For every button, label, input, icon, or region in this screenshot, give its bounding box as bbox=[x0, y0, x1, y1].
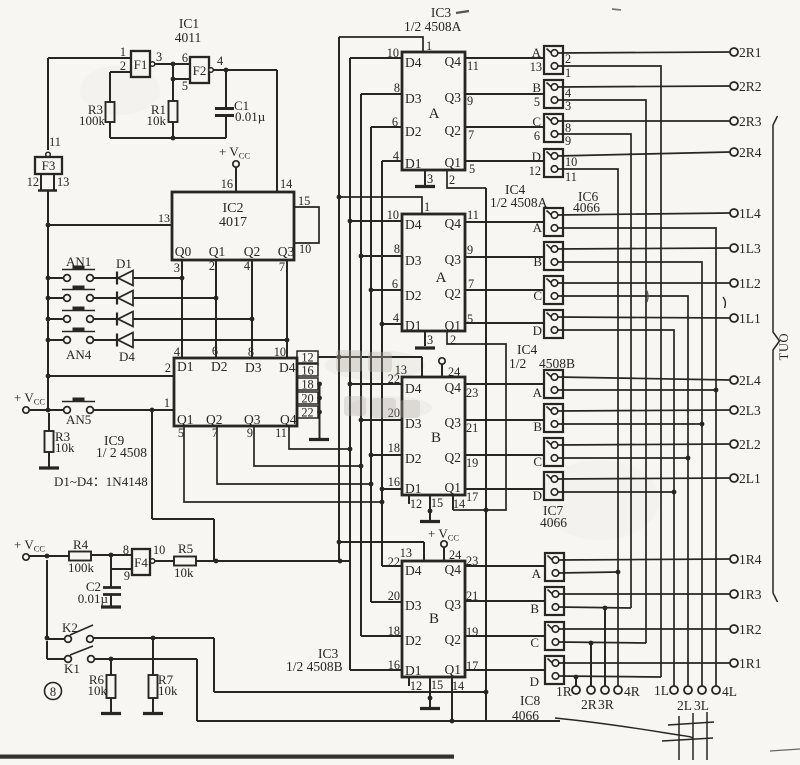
svg-text:10: 10 bbox=[387, 46, 399, 60]
svg-text:21: 21 bbox=[466, 421, 478, 435]
svg-text:Q1: Q1 bbox=[445, 662, 462, 677]
svg-text:A: A bbox=[532, 566, 542, 581]
svg-text:D2: D2 bbox=[405, 633, 422, 648]
svg-text:Q2: Q2 bbox=[244, 244, 261, 259]
svg-text:D1: D1 bbox=[405, 481, 422, 496]
svg-text:16: 16 bbox=[388, 475, 400, 489]
svg-text:15: 15 bbox=[431, 496, 443, 510]
svg-text:1L1: 1L1 bbox=[739, 311, 761, 326]
svg-text:D: D bbox=[533, 488, 542, 503]
svg-text:3: 3 bbox=[156, 50, 162, 64]
svg-text:4: 4 bbox=[174, 345, 180, 359]
svg-text:R4: R4 bbox=[73, 537, 89, 552]
svg-text:6: 6 bbox=[392, 277, 398, 291]
svg-text:11: 11 bbox=[565, 170, 577, 184]
svg-text:13: 13 bbox=[530, 60, 542, 74]
svg-text:12: 12 bbox=[410, 679, 422, 693]
svg-text:IC4: IC4 bbox=[517, 342, 538, 357]
svg-text:17: 17 bbox=[466, 490, 478, 504]
svg-text:1/2 4508B: 1/2 4508B bbox=[286, 659, 343, 674]
svg-text:1/ 2 4508: 1/ 2 4508 bbox=[96, 445, 147, 460]
svg-text:1/2 4508A: 1/2 4508A bbox=[490, 195, 548, 210]
svg-text:1R1: 1R1 bbox=[739, 656, 762, 671]
svg-text:2R3: 2R3 bbox=[739, 114, 762, 129]
svg-text:10k: 10k bbox=[55, 440, 75, 455]
svg-text:D4: D4 bbox=[405, 381, 422, 396]
svg-text:D4: D4 bbox=[405, 217, 422, 232]
svg-text:D1: D1 bbox=[405, 156, 422, 171]
svg-text:9: 9 bbox=[124, 569, 130, 583]
svg-text:A: A bbox=[532, 45, 542, 60]
svg-text:1: 1 bbox=[120, 45, 126, 59]
svg-text:Q1: Q1 bbox=[209, 244, 226, 259]
svg-text:Q3: Q3 bbox=[445, 415, 462, 430]
svg-text:1: 1 bbox=[424, 200, 430, 214]
svg-text:6: 6 bbox=[534, 129, 540, 143]
svg-text:C: C bbox=[533, 288, 542, 303]
svg-text:Q2: Q2 bbox=[445, 450, 462, 465]
svg-text:12: 12 bbox=[27, 175, 39, 189]
svg-text:18: 18 bbox=[301, 378, 313, 392]
svg-text:D1: D1 bbox=[177, 359, 194, 374]
svg-text:AN5: AN5 bbox=[66, 412, 91, 427]
svg-text:Q3: Q3 bbox=[445, 597, 462, 612]
svg-text:D4: D4 bbox=[279, 360, 296, 375]
svg-text:8: 8 bbox=[248, 345, 254, 359]
svg-text:4: 4 bbox=[244, 259, 250, 273]
svg-text:1R2: 1R2 bbox=[739, 622, 762, 637]
svg-text:D4: D4 bbox=[405, 563, 422, 578]
svg-text:100k: 100k bbox=[79, 113, 106, 128]
svg-text:1: 1 bbox=[164, 396, 170, 410]
svg-text:2: 2 bbox=[450, 333, 456, 347]
svg-text:A: A bbox=[436, 270, 447, 286]
svg-text:D2: D2 bbox=[405, 451, 422, 466]
svg-text:IC2: IC2 bbox=[223, 201, 244, 216]
svg-text:2L: 2L bbox=[677, 698, 692, 713]
svg-text:4508B: 4508B bbox=[539, 356, 575, 371]
svg-text:4066: 4066 bbox=[540, 515, 567, 530]
svg-text:D: D bbox=[532, 149, 541, 164]
svg-text:Q4: Q4 bbox=[280, 412, 297, 427]
svg-text:F2: F2 bbox=[193, 63, 207, 78]
svg-text:B: B bbox=[530, 601, 539, 616]
svg-text:10: 10 bbox=[274, 345, 286, 359]
svg-text:4: 4 bbox=[217, 54, 223, 68]
svg-text:D: D bbox=[533, 323, 542, 338]
svg-text:2L2: 2L2 bbox=[739, 437, 761, 452]
svg-text:Q2: Q2 bbox=[445, 123, 462, 138]
svg-text:3: 3 bbox=[427, 172, 433, 186]
svg-text:9: 9 bbox=[467, 94, 473, 108]
svg-text:Q4: Q4 bbox=[445, 380, 462, 395]
svg-text:F4: F4 bbox=[134, 555, 148, 570]
svg-text:18: 18 bbox=[388, 441, 400, 455]
svg-text:D: D bbox=[530, 674, 539, 689]
svg-text:4: 4 bbox=[393, 311, 399, 325]
svg-text:D1: D1 bbox=[405, 663, 422, 678]
svg-text:1R: 1R bbox=[556, 684, 572, 699]
svg-text:18: 18 bbox=[388, 624, 400, 638]
svg-text:2R4: 2R4 bbox=[739, 145, 762, 160]
svg-text:2R: 2R bbox=[581, 697, 597, 712]
svg-text:8: 8 bbox=[123, 543, 129, 557]
svg-text:10k: 10k bbox=[174, 565, 194, 580]
svg-text:8: 8 bbox=[50, 685, 56, 699]
svg-text:O: O bbox=[777, 333, 791, 342]
svg-text:2R1: 2R1 bbox=[739, 45, 762, 60]
svg-text:2: 2 bbox=[209, 259, 215, 273]
svg-text:11: 11 bbox=[49, 135, 61, 149]
svg-text:AN1: AN1 bbox=[66, 254, 91, 269]
svg-text:2R2: 2R2 bbox=[739, 79, 762, 94]
svg-text:22: 22 bbox=[301, 406, 313, 420]
svg-text:1L: 1L bbox=[654, 683, 669, 698]
svg-text:1L2: 1L2 bbox=[739, 276, 761, 291]
svg-text:10: 10 bbox=[387, 208, 399, 222]
svg-text:T: T bbox=[777, 352, 791, 360]
svg-text:22: 22 bbox=[388, 372, 400, 386]
svg-text:10: 10 bbox=[299, 242, 311, 256]
svg-text:A: A bbox=[533, 220, 543, 235]
svg-text:K2: K2 bbox=[62, 620, 78, 635]
svg-text:13: 13 bbox=[400, 546, 412, 560]
svg-text:0.01µ: 0.01µ bbox=[235, 109, 266, 124]
svg-text:9: 9 bbox=[247, 426, 253, 440]
svg-text:2: 2 bbox=[449, 173, 455, 187]
svg-text:D3: D3 bbox=[405, 598, 422, 613]
svg-text:1/2 4508A: 1/2 4508A bbox=[404, 19, 462, 34]
svg-text:6: 6 bbox=[212, 344, 218, 358]
svg-text:Q3: Q3 bbox=[278, 244, 295, 259]
svg-text:1: 1 bbox=[565, 66, 571, 80]
svg-text:IC3: IC3 bbox=[431, 5, 452, 20]
svg-text:C: C bbox=[532, 114, 541, 129]
svg-text:12: 12 bbox=[301, 351, 313, 365]
svg-text:3: 3 bbox=[174, 261, 180, 275]
svg-text:8: 8 bbox=[565, 121, 571, 135]
svg-text:Q1: Q1 bbox=[445, 480, 462, 495]
svg-text:D1: D1 bbox=[405, 318, 422, 333]
svg-text:F1: F1 bbox=[134, 57, 148, 72]
svg-text:D2: D2 bbox=[405, 124, 422, 139]
svg-text:B: B bbox=[533, 419, 542, 434]
svg-text:22: 22 bbox=[388, 555, 400, 569]
svg-text:4: 4 bbox=[393, 149, 399, 163]
svg-text:9: 9 bbox=[565, 134, 571, 148]
svg-text:B: B bbox=[429, 611, 439, 627]
svg-text:AN4: AN4 bbox=[66, 347, 92, 362]
svg-text:D1: D1 bbox=[116, 256, 132, 271]
svg-text:3L: 3L bbox=[694, 698, 709, 713]
svg-text:1L3: 1L3 bbox=[739, 241, 761, 256]
svg-text:8: 8 bbox=[394, 81, 400, 95]
svg-text:Q0: Q0 bbox=[175, 244, 192, 259]
svg-text:4L: 4L bbox=[722, 684, 737, 699]
svg-text:20: 20 bbox=[388, 589, 400, 603]
svg-text:4066: 4066 bbox=[573, 200, 600, 215]
svg-text:7: 7 bbox=[468, 277, 474, 291]
svg-text:D3: D3 bbox=[405, 416, 422, 431]
svg-text:3: 3 bbox=[565, 99, 571, 113]
svg-text:11: 11 bbox=[467, 208, 479, 222]
svg-text:Q2: Q2 bbox=[445, 286, 462, 301]
svg-text:B: B bbox=[431, 430, 441, 446]
svg-text:Q3: Q3 bbox=[445, 90, 462, 105]
svg-text:100k: 100k bbox=[68, 560, 95, 575]
svg-text:10: 10 bbox=[153, 543, 165, 557]
svg-text:20: 20 bbox=[301, 392, 313, 406]
svg-text:2: 2 bbox=[565, 52, 571, 66]
svg-text:9: 9 bbox=[467, 243, 473, 257]
svg-text:11: 11 bbox=[275, 426, 287, 440]
svg-text:1/2: 1/2 bbox=[509, 356, 526, 371]
svg-text:B: B bbox=[533, 254, 542, 269]
svg-text:1R4: 1R4 bbox=[739, 552, 762, 567]
svg-text:D3: D3 bbox=[405, 91, 422, 106]
svg-text:4011: 4011 bbox=[175, 30, 202, 45]
svg-text:16: 16 bbox=[301, 364, 313, 378]
svg-text:23: 23 bbox=[466, 386, 478, 400]
svg-text:12: 12 bbox=[529, 164, 541, 178]
svg-text:K1: K1 bbox=[64, 661, 80, 676]
svg-text:11: 11 bbox=[467, 59, 479, 73]
svg-text:2L4: 2L4 bbox=[739, 373, 761, 388]
svg-text:Q2: Q2 bbox=[206, 412, 223, 427]
svg-text:7: 7 bbox=[279, 260, 285, 274]
svg-text:D3: D3 bbox=[245, 360, 262, 375]
svg-text:5: 5 bbox=[469, 162, 475, 176]
svg-text:10: 10 bbox=[565, 155, 577, 169]
svg-text:Q1: Q1 bbox=[445, 318, 462, 333]
svg-text:D3: D3 bbox=[405, 253, 422, 268]
svg-text:Q1: Q1 bbox=[445, 155, 462, 170]
svg-text:6: 6 bbox=[182, 51, 188, 65]
svg-text:D4: D4 bbox=[119, 349, 135, 364]
svg-text:U: U bbox=[777, 343, 791, 352]
svg-text:Q4: Q4 bbox=[445, 54, 462, 69]
svg-text:6: 6 bbox=[392, 115, 398, 129]
svg-text:4017: 4017 bbox=[219, 215, 247, 230]
svg-text:4066: 4066 bbox=[512, 708, 539, 723]
svg-text:Q4: Q4 bbox=[445, 562, 462, 577]
svg-text:2L3: 2L3 bbox=[739, 403, 761, 418]
svg-text:13: 13 bbox=[158, 211, 170, 225]
svg-text:B: B bbox=[532, 80, 541, 95]
svg-text:1R3: 1R3 bbox=[739, 587, 762, 602]
svg-text:D2: D2 bbox=[405, 288, 422, 303]
svg-text:12: 12 bbox=[410, 497, 422, 511]
svg-text:R5: R5 bbox=[178, 541, 193, 556]
svg-text:Q4: Q4 bbox=[445, 216, 462, 231]
svg-text:C: C bbox=[530, 635, 539, 650]
svg-text:D4: D4 bbox=[405, 55, 422, 70]
svg-text:5: 5 bbox=[182, 79, 188, 93]
svg-text:2: 2 bbox=[165, 361, 171, 375]
svg-text:IC1: IC1 bbox=[179, 16, 199, 31]
svg-text:Q3: Q3 bbox=[445, 252, 462, 267]
svg-text:A: A bbox=[533, 385, 543, 400]
svg-text:Q2: Q2 bbox=[445, 632, 462, 647]
svg-text:10k: 10k bbox=[88, 683, 108, 698]
svg-text:14: 14 bbox=[453, 497, 465, 511]
svg-text:0.01µ: 0.01µ bbox=[78, 591, 109, 606]
svg-text:16: 16 bbox=[221, 177, 233, 191]
svg-text:5: 5 bbox=[534, 95, 540, 109]
svg-text:Q3: Q3 bbox=[244, 412, 261, 427]
svg-text:4: 4 bbox=[565, 86, 571, 100]
svg-text:15: 15 bbox=[298, 194, 310, 208]
svg-text:D1~D4：1N4148: D1~D4：1N4148 bbox=[54, 474, 148, 489]
svg-text:10k: 10k bbox=[158, 683, 178, 698]
svg-text:F3: F3 bbox=[42, 158, 56, 173]
svg-text:C: C bbox=[533, 454, 542, 469]
svg-text:10k: 10k bbox=[147, 113, 167, 128]
svg-text:2: 2 bbox=[120, 59, 126, 73]
svg-text:3: 3 bbox=[427, 333, 433, 347]
svg-text:3R: 3R bbox=[598, 697, 614, 712]
svg-text:2L1: 2L1 bbox=[739, 471, 761, 486]
svg-text:4R: 4R bbox=[624, 684, 640, 699]
svg-text:A: A bbox=[429, 106, 440, 122]
svg-text:19: 19 bbox=[466, 456, 478, 470]
svg-text:D2: D2 bbox=[211, 359, 228, 374]
svg-text:14: 14 bbox=[452, 679, 464, 693]
svg-text:1L4: 1L4 bbox=[739, 206, 761, 221]
svg-text:Q1: Q1 bbox=[177, 412, 194, 427]
svg-text:14: 14 bbox=[280, 177, 292, 191]
svg-text:8: 8 bbox=[394, 242, 400, 256]
svg-text:15: 15 bbox=[431, 678, 443, 692]
svg-text:16: 16 bbox=[388, 658, 400, 672]
svg-text:7: 7 bbox=[468, 128, 474, 142]
svg-text:IC8: IC8 bbox=[520, 693, 541, 708]
svg-text:13: 13 bbox=[57, 175, 69, 189]
